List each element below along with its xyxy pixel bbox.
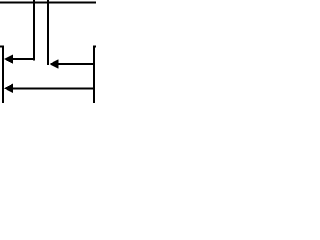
wire vertical A (from top edge down to corner): [33, 0, 35, 61]
arrowhead 2 (points left at vertical B): [49, 59, 58, 69]
left rail top stub to edge: [0, 46, 4, 48]
wire B horizontal (arrow 2 to right rail): [58, 63, 94, 65]
wire top bus: [0, 2, 96, 4]
left rail vertical: [2, 46, 4, 104]
right rail top stub to edge: [93, 46, 96, 48]
arrowhead 3 (points left at left rail): [4, 84, 13, 93]
arrowhead 1 (points left at left rail): [4, 54, 13, 63]
wire vertical B (from top edge down to arrow 2 tip): [47, 0, 49, 65]
wire A horizontal (corner to arrow 1): [13, 58, 36, 60]
wire C horizontal (right rail to arrow 3): [13, 87, 94, 89]
right rail vertical: [93, 46, 95, 104]
